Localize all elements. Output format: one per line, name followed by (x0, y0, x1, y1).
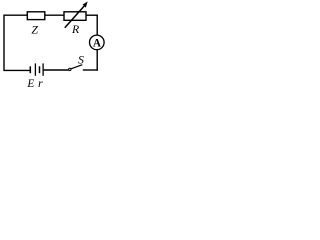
battery long plate 2 (42, 63, 44, 75)
svg-text:A: A (93, 38, 101, 50)
rheostat R box (64, 12, 86, 20)
wire top right (R to corner) (86, 14, 98, 16)
ammeter A circle (90, 35, 105, 50)
wire top middle (Z to R) (45, 14, 64, 16)
battery short plate 2 (39, 66, 41, 73)
switch blade (71, 65, 82, 69)
battery short plate 1 (29, 66, 31, 73)
wire top-left horizontal (4, 14, 27, 16)
switch pivot circle (69, 68, 71, 70)
wire bottom-left horizontal (4, 69, 30, 71)
wire right vertical upper (corner to ammeter) (96, 15, 98, 36)
wire right vertical lower (ammeter to corner) (96, 50, 98, 71)
wire left vertical (3, 15, 5, 72)
svg-text:R: R (71, 22, 80, 36)
wire battery to switch (44, 69, 69, 71)
rheostat arrow shaft (65, 4, 86, 28)
svg-text:Z: Z (31, 23, 38, 37)
resistor Z box (27, 12, 45, 20)
wire switch contact to right corner (83, 69, 98, 71)
svg-text:r: r (38, 76, 43, 90)
battery long plate 1 (34, 63, 36, 75)
svg-text:E: E (26, 78, 34, 90)
rheostat arrowhead (83, 2, 88, 8)
svg-text:S: S (78, 53, 84, 67)
